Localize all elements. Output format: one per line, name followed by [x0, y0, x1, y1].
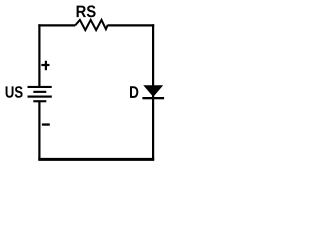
diode label D	[130, 86, 138, 98]
battery label US	[6, 86, 23, 98]
wire bottom horizontal segment	[38, 158, 154, 161]
wire left vertical upper segment	[38, 24, 40, 87]
plus polarity mark	[41, 61, 49, 70]
resistor label RS	[77, 5, 96, 17]
battery US plates	[28, 86, 52, 102]
wire top-right horizontal segment	[108, 24, 154, 26]
minus polarity mark	[42, 123, 50, 125]
diode D	[142, 85, 164, 99]
resistor R S zigzag	[75, 20, 108, 30]
wire top-left horizontal segment	[38, 24, 75, 26]
wire right vertical segment	[152, 24, 154, 160]
wire left vertical lower segment	[38, 100, 40, 160]
